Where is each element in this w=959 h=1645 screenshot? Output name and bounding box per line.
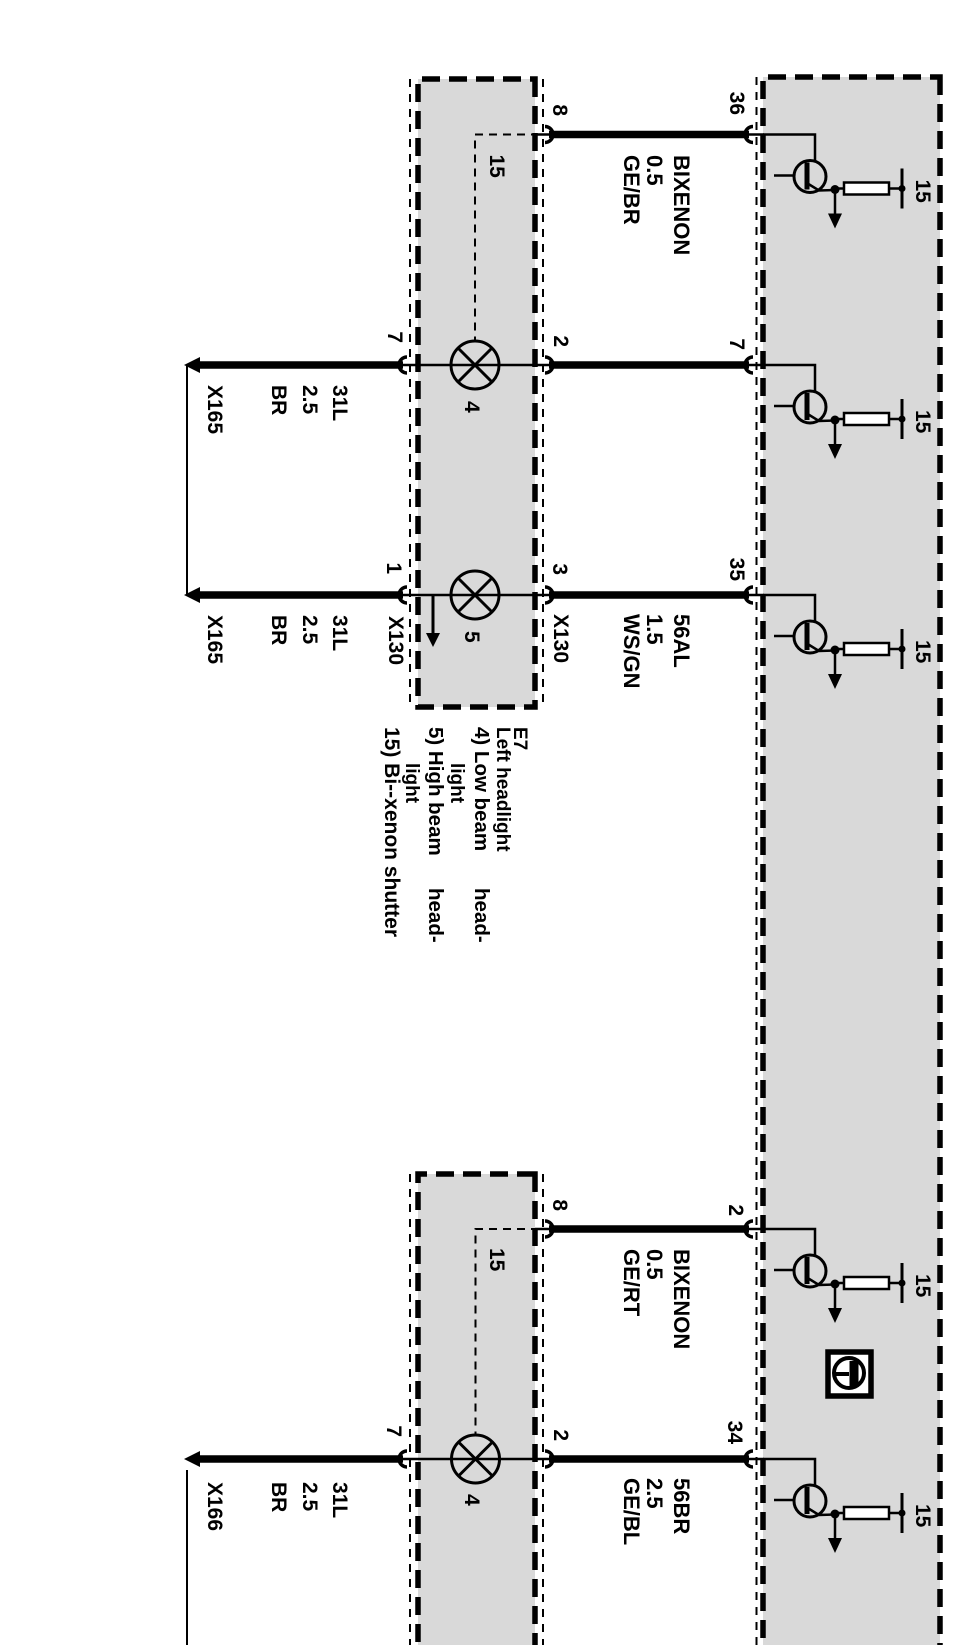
svg-text:15: 15 (485, 155, 508, 179)
svg-text:8: 8 (548, 1199, 571, 1211)
svg-text:5) High beam: 5) High beam (424, 727, 447, 856)
svg-text:2: 2 (549, 335, 572, 347)
svg-text:56BR: 56BR (669, 1478, 694, 1534)
svg-text:1: 1 (382, 562, 405, 574)
svg-text:X130: X130 (384, 616, 407, 665)
svg-text:15: 15 (911, 410, 934, 434)
svg-text:X130: X130 (549, 614, 572, 663)
svg-text:2: 2 (549, 1429, 572, 1441)
svg-text:34: 34 (723, 1421, 746, 1445)
svg-text:0.5: 0.5 (642, 1249, 667, 1280)
svg-text:1.5: 1.5 (642, 614, 667, 645)
svg-text:2.5: 2.5 (298, 385, 321, 415)
svg-text:X165: X165 (203, 615, 226, 664)
svg-text:15) Bi--xenon shutter: 15) Bi--xenon shutter (380, 727, 403, 937)
svg-text:BR: BR (267, 385, 290, 415)
svg-text:light: light (446, 763, 467, 804)
svg-text:0.5: 0.5 (642, 155, 667, 186)
svg-text:BIXENON: BIXENON (669, 155, 694, 255)
svg-text:15: 15 (911, 1274, 934, 1298)
svg-text:7: 7 (383, 331, 406, 343)
svg-text:31L: 31L (328, 385, 351, 421)
svg-text:15: 15 (485, 1248, 508, 1272)
svg-text:head-: head- (424, 888, 447, 943)
svg-text:35: 35 (725, 558, 748, 582)
svg-text:GE/BL: GE/BL (619, 1478, 644, 1545)
svg-text:15: 15 (911, 180, 934, 204)
svg-text:4: 4 (460, 401, 483, 413)
svg-text:BIXENON: BIXENON (669, 1249, 694, 1349)
svg-text:15: 15 (911, 640, 934, 664)
svg-text:31L: 31L (328, 1482, 351, 1518)
svg-text:8: 8 (548, 104, 571, 116)
svg-text:head-: head- (470, 888, 493, 943)
svg-text:X165: X165 (203, 385, 226, 434)
svg-text:GE/BR: GE/BR (619, 155, 644, 225)
svg-text:WS/GN: WS/GN (619, 614, 644, 689)
svg-text:7: 7 (382, 1425, 405, 1437)
svg-text:15: 15 (911, 1504, 934, 1528)
svg-text:2: 2 (724, 1204, 747, 1216)
svg-text:Left headlight: Left headlight (492, 727, 513, 852)
svg-text:2.5: 2.5 (298, 615, 321, 645)
svg-text:31L: 31L (328, 615, 351, 651)
svg-text:BR: BR (267, 1482, 290, 1512)
svg-text:3: 3 (548, 563, 571, 575)
svg-text:56AL: 56AL (669, 614, 694, 668)
svg-text:2.5: 2.5 (298, 1482, 321, 1512)
svg-text:BR: BR (267, 615, 290, 645)
svg-text:4) Low beam: 4) Low beam (470, 727, 493, 851)
svg-text:36: 36 (725, 92, 748, 115)
svg-text:light: light (401, 763, 422, 804)
svg-text:5: 5 (460, 631, 483, 643)
svg-text:4: 4 (460, 1494, 483, 1506)
svg-text:X166: X166 (203, 1482, 226, 1531)
svg-text:2.5: 2.5 (642, 1478, 667, 1509)
svg-text:7: 7 (725, 338, 748, 350)
svg-text:GE/RT: GE/RT (619, 1249, 644, 1317)
